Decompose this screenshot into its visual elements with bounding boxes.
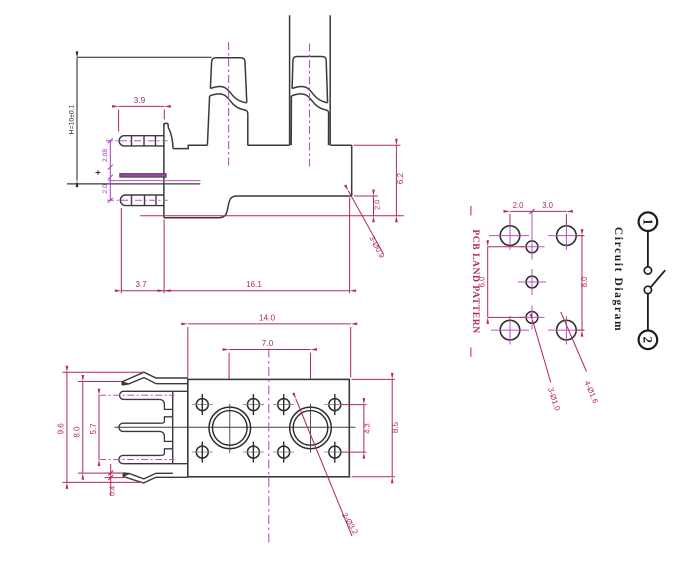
body mounting tab bbox=[164, 123, 168, 127]
land hole A2 crosshair bbox=[548, 222, 584, 251]
dimension 4.3 bbox=[342, 405, 367, 453]
dimension 0.4 bbox=[105, 464, 125, 496]
terminal T1 bbox=[207, 58, 247, 146]
pin P1 centerline bbox=[106, 140, 168, 142]
rivet R4 bbox=[324, 394, 345, 415]
switch blade bbox=[650, 270, 665, 288]
side view body outline bbox=[164, 123, 352, 217]
dimension H=10±0.1 bbox=[77, 57, 212, 180]
bottom view main centerline bbox=[115, 426, 356, 428]
dimension 3.0 land bbox=[532, 210, 566, 212]
land hole A2 Ø1.6 bbox=[557, 226, 577, 246]
terminal T1 centerline bbox=[228, 42, 230, 167]
dimension 3.7 bbox=[121, 208, 164, 293]
dimension 2.0 step bbox=[354, 196, 378, 216]
rivet R3 bbox=[273, 394, 294, 415]
switch contact b bbox=[644, 286, 651, 293]
svg-text:3.9: 3.9 bbox=[134, 96, 146, 105]
svg-text:6.2: 6.2 bbox=[396, 172, 405, 184]
svg-text:14.0: 14.0 bbox=[259, 312, 276, 322]
switch contact a bbox=[644, 267, 651, 274]
pin P2 tick mark bbox=[96, 170, 101, 175]
svg-text:2.0: 2.0 bbox=[373, 200, 382, 210]
rivet R1 bbox=[192, 394, 213, 415]
svg-text:9.6: 9.6 bbox=[56, 423, 65, 435]
leader 2-Ø3.2 bbox=[296, 399, 352, 536]
land hole B2 Ø1.0 bbox=[526, 276, 538, 288]
pin P3 centerline bottom bbox=[99, 459, 174, 461]
land hole B3 crosshair bbox=[520, 306, 545, 330]
dimension 8.0 land bbox=[576, 236, 585, 331]
land hole B2 crosshair bbox=[518, 269, 546, 295]
svg-text:2.0: 2.0 bbox=[102, 184, 109, 194]
terminal node 2 bbox=[639, 331, 658, 350]
dimension 2.08 pins bbox=[108, 138, 113, 203]
svg-text:2: 2 bbox=[640, 337, 655, 344]
svg-text:Circuit Diagram: Circuit Diagram bbox=[612, 227, 624, 332]
wire contact to 2 bbox=[647, 294, 649, 331]
land hole A1 crosshair bbox=[489, 222, 529, 251]
rivet R2 bbox=[243, 394, 264, 415]
mounting hole M2 Ø3.2 bbox=[290, 404, 332, 453]
svg-text:5.7: 5.7 bbox=[89, 423, 98, 435]
svg-text:3.7: 3.7 bbox=[135, 280, 147, 289]
svg-text:0.4: 0.4 bbox=[107, 486, 116, 496]
dimension 8.0 bbox=[78, 382, 123, 474]
land hole B3 Ø1.0 bbox=[526, 312, 538, 324]
dimension 5.7 bbox=[98, 395, 100, 459]
terminal T2 centerline bbox=[309, 44, 311, 167]
land hole A4 crosshair bbox=[548, 316, 584, 345]
leader 4-Ø1.6 bbox=[561, 312, 587, 372]
svg-text:3-Ø0.9: 3-Ø0.9 bbox=[367, 234, 386, 259]
dimension 14.0 bbox=[188, 324, 351, 378]
land hole B1 Ø1.0 bbox=[526, 241, 538, 253]
leader 3-Ø0.9 bbox=[348, 191, 383, 254]
rivet R6 bbox=[243, 442, 264, 463]
terminal node 1 bbox=[639, 212, 658, 231]
mounting hole M1 Ø3.2 bbox=[209, 404, 251, 453]
flange notch 2 bbox=[159, 431, 172, 455]
land hole A3 crosshair bbox=[491, 316, 529, 345]
svg-text:4.3: 4.3 bbox=[362, 423, 371, 434]
seating plane line bbox=[140, 215, 404, 217]
dimension 6.0 land bbox=[488, 247, 525, 318]
leader 3-Ø1.0 bbox=[533, 320, 551, 382]
svg-text:16.1: 16.1 bbox=[246, 280, 262, 289]
land hole A3 Ø1.6 bbox=[500, 320, 520, 340]
pin P2 reference lines bbox=[109, 180, 201, 182]
svg-text:6.0: 6.0 bbox=[477, 276, 486, 288]
dimension 9.6 bbox=[63, 372, 145, 482]
rivet R8 bbox=[324, 442, 345, 463]
rivet R5 bbox=[192, 442, 213, 463]
pin P1 bottom view bbox=[120, 391, 188, 399]
flange notch 1 bbox=[159, 399, 172, 423]
pin P1 centerline bottom bbox=[99, 394, 174, 396]
pin P3 centerline bbox=[107, 199, 168, 201]
dimension 7.0 bbox=[229, 350, 310, 379]
svg-text:H=10±0.1: H=10±0.1 bbox=[69, 104, 76, 134]
land hole A1 Ø1.6 bbox=[500, 226, 520, 246]
rivet R7 bbox=[273, 442, 294, 463]
svg-text:1: 1 bbox=[640, 218, 655, 225]
svg-text:4-Ø1.6: 4-Ø1.6 bbox=[582, 379, 600, 404]
pin P2 side view (flat terminal) bbox=[120, 174, 166, 177]
pin P3 side view bbox=[120, 195, 164, 206]
bottom view body bbox=[188, 379, 349, 476]
svg-text:8.5: 8.5 bbox=[391, 421, 400, 433]
svg-text:2.0: 2.0 bbox=[513, 201, 525, 210]
bottom view flange bbox=[172, 391, 174, 463]
dimension 8.5 bbox=[352, 379, 395, 476]
pin P1 side view bbox=[119, 136, 164, 146]
dimension 16.1 bbox=[164, 198, 350, 294]
pin P2 bottom view bbox=[119, 423, 160, 431]
land hole A4 Ø1.6 bbox=[557, 320, 577, 340]
pin P3 bottom view bbox=[119, 455, 188, 463]
terminal T2 bbox=[291, 57, 328, 146]
wire 1 to contact bbox=[647, 231, 649, 267]
dimension 6.2 bbox=[354, 145, 401, 216]
svg-text:7.0: 7.0 bbox=[262, 338, 274, 348]
svg-text:3.0: 3.0 bbox=[542, 201, 554, 210]
bottom bent tab bbox=[123, 473, 188, 484]
svg-text:8.0: 8.0 bbox=[73, 426, 82, 438]
actuator guide lines bbox=[290, 15, 331, 145]
svg-text:2.08: 2.08 bbox=[102, 149, 109, 162]
bottom view vertical centerline bbox=[268, 349, 270, 546]
svg-text:8.0: 8.0 bbox=[580, 276, 589, 288]
land hole B1 crosshair bbox=[520, 212, 545, 260]
svg-text:3-Ø1.0: 3-Ø1.0 bbox=[546, 386, 562, 412]
top bent tab bbox=[122, 372, 188, 385]
dimension 3.9 bbox=[119, 106, 165, 131]
dimension 2.0 land bbox=[510, 211, 566, 225]
